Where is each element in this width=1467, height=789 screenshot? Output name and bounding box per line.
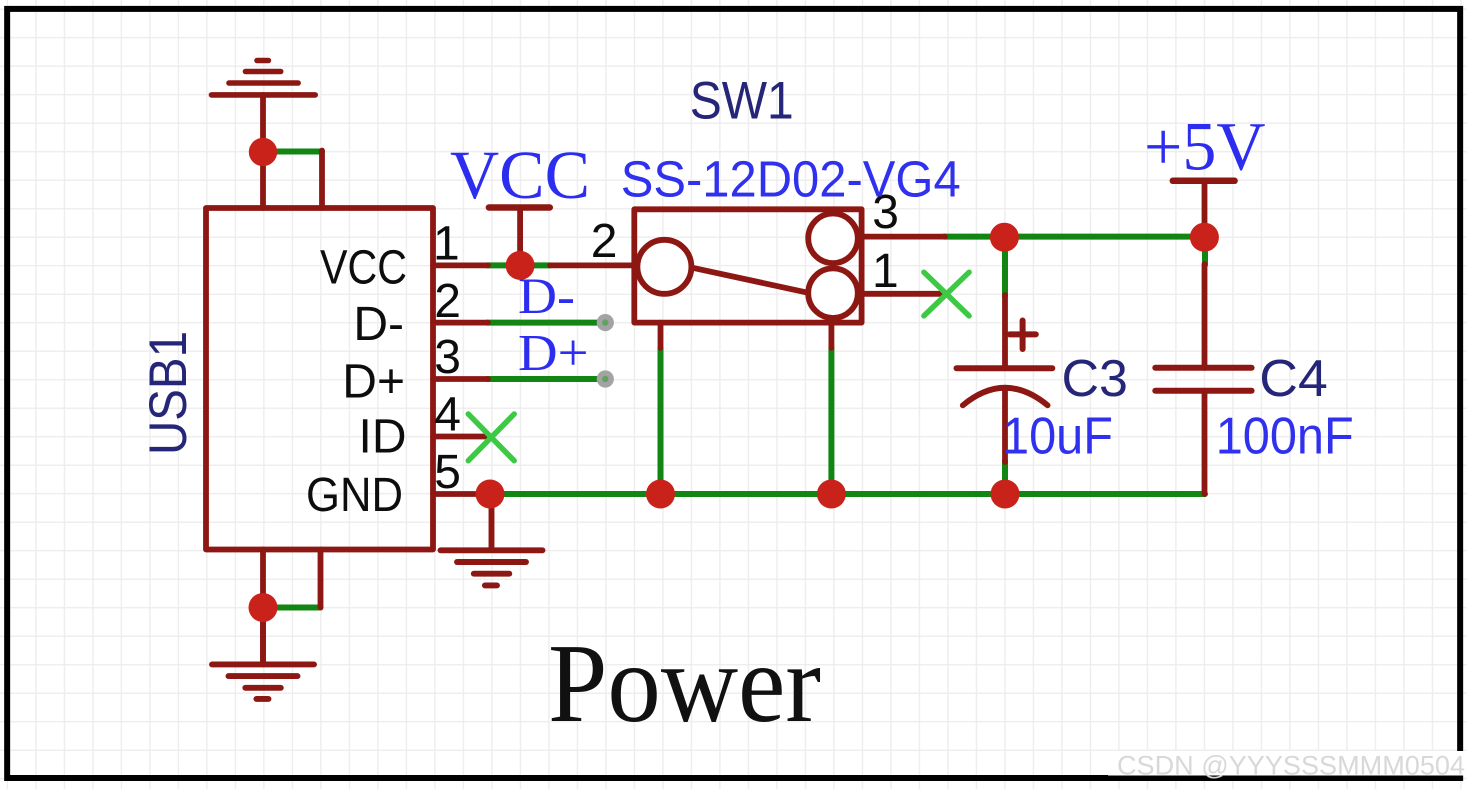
svg-text:GND: GND (306, 469, 403, 522)
wire D+ net (487, 376, 597, 382)
ground top-left (inverted earth) (212, 61, 316, 95)
pin 2 D- stub (433, 320, 488, 326)
wire C3 top (1002, 237, 1008, 296)
junction dot shield bottom (249, 593, 278, 622)
connector USB1 body (206, 208, 433, 550)
switch bottom-right pin stub (829, 323, 835, 348)
switch SW1 throw contact circle pin1 (808, 268, 858, 318)
svg-text:ID: ID (359, 411, 407, 464)
capacitor C3 top plate (957, 365, 1053, 371)
svg-text:D-: D- (353, 298, 404, 351)
svg-text:Power: Power (548, 622, 821, 746)
watermark band (1108, 751, 1467, 776)
svg-text:1: 1 (433, 218, 460, 271)
USB1 shield pin bottom-right (318, 550, 324, 608)
svg-text:3: 3 (434, 331, 461, 384)
capacitor C4 bottom pin (1202, 391, 1208, 494)
wire +5V net top (944, 234, 1205, 240)
pin 5 GND stub (433, 491, 490, 497)
USB1 shield pin top-left (260, 95, 266, 208)
wire VCC net (487, 262, 550, 268)
svg-text:4: 4 (434, 388, 461, 441)
svg-text:D+: D+ (342, 355, 405, 408)
switch bottom-left pin stub (658, 323, 664, 348)
pin 1 VCC stub (433, 262, 488, 268)
junction dot GND switch left (646, 480, 675, 509)
wire shield bottom link (263, 605, 321, 611)
junction dot VCC (506, 251, 535, 280)
capacitor C3 bottom pin (1002, 390, 1008, 462)
wire C4 top (1202, 237, 1208, 265)
wire C3 bottom (1002, 461, 1008, 494)
svg-text:VCC: VCC (450, 137, 590, 213)
svg-text:D-: D- (518, 269, 575, 325)
svg-text:100nF: 100nF (1216, 407, 1354, 465)
junction dot GND switch right (817, 480, 846, 509)
junction dot GND C3 (991, 480, 1020, 509)
junction dot +5V C4 (1190, 223, 1219, 252)
switch SW1 lever (692, 268, 807, 293)
switch pin 2 stub (550, 262, 635, 268)
power symbol VCC (489, 208, 550, 266)
switch SW1 throw contact circle pin3 (808, 214, 858, 264)
wire switch left bottom to GND (658, 348, 664, 494)
svg-text:CSDN @YYYSSSMMM0504: CSDN @YYYSSSMMM0504 (1117, 751, 1465, 781)
svg-text:D+: D+ (518, 325, 589, 382)
svg-text:VCC: VCC (320, 241, 407, 294)
svg-text:SW1: SW1 (690, 72, 794, 131)
svg-text:C4: C4 (1259, 350, 1328, 408)
svg-text:2: 2 (434, 275, 461, 328)
capacitor C3 curved bottom plate (963, 388, 1048, 406)
svg-text:2: 2 (591, 215, 618, 268)
ground below pin5 (441, 494, 543, 585)
USB1 shield pin bottom-left (260, 550, 266, 665)
capacitor C4 bottom plate (1155, 388, 1251, 394)
no-connect X on pin 4 ID (468, 414, 514, 461)
junction dot shield top (249, 138, 277, 166)
switch pin 3 stub (860, 234, 945, 240)
capacitor C4 top plate (1155, 365, 1251, 371)
svg-text:+5V: +5V (1144, 109, 1266, 185)
pin 3 D+ stub (433, 376, 488, 382)
svg-text:C3: C3 (1062, 350, 1128, 408)
junction dot GND pin5 (476, 480, 505, 509)
switch SW1 body (634, 209, 861, 322)
svg-text:USB1: USB1 (139, 331, 198, 455)
svg-text:1: 1 (872, 245, 899, 298)
power symbol +5V (1173, 181, 1235, 237)
no-connect X on switch pin 1 (924, 272, 969, 316)
capacitor C3 top pin (1002, 295, 1008, 368)
ground bottom-left (212, 664, 314, 699)
wire-end dangling dot D- (597, 314, 614, 331)
switch SW1 common contact circle (637, 240, 691, 294)
wire-end dangling dot D+ (597, 370, 614, 387)
USB1 shield pin top-right (319, 151, 325, 209)
wire switch right bottom to GND (828, 348, 834, 494)
wire shield top link (263, 149, 322, 155)
pin 4 ID stub (433, 434, 487, 440)
svg-text:10uF: 10uF (1002, 407, 1113, 465)
svg-text:5: 5 (434, 446, 461, 499)
junction dot +5V C3 (990, 223, 1019, 252)
capacitor C3 plus sign (1010, 321, 1036, 350)
wire pin5 dot to ground (260, 608, 266, 665)
wire D- net (487, 320, 597, 326)
switch pin 1 stub (860, 291, 947, 297)
wire GND bus (490, 491, 1205, 497)
svg-text:SS-12D02-VG4: SS-12D02-VG4 (621, 150, 961, 207)
capacitor C4 top pin (1202, 264, 1208, 368)
